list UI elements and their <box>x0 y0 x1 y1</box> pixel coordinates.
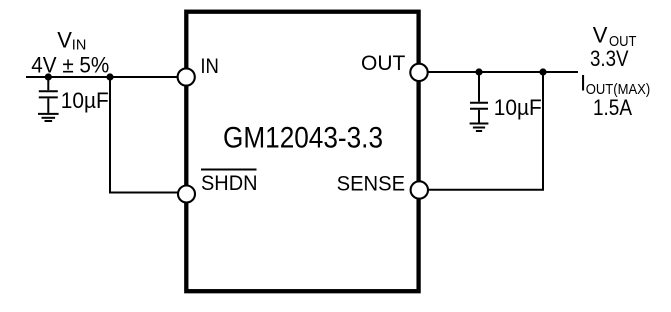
svg-text:OUT: OUT <box>361 52 406 75</box>
svg-text:SENSE: SENSE <box>337 172 406 195</box>
svg-text:IN: IN <box>200 55 219 78</box>
svg-text:V: V <box>593 23 608 48</box>
svg-text:V: V <box>57 28 72 53</box>
svg-text:3.3V: 3.3V <box>590 46 629 71</box>
svg-text:10µF: 10µF <box>494 95 542 120</box>
svg-text:GM12043-3.3: GM12043-3.3 <box>223 121 383 154</box>
svg-text:IN: IN <box>72 38 87 54</box>
svg-text:SHDN: SHDN <box>201 172 258 195</box>
svg-text:4V ± 5%: 4V ± 5% <box>31 52 109 77</box>
svg-text:10µF: 10µF <box>61 88 109 113</box>
svg-text:1.5A: 1.5A <box>593 95 632 120</box>
